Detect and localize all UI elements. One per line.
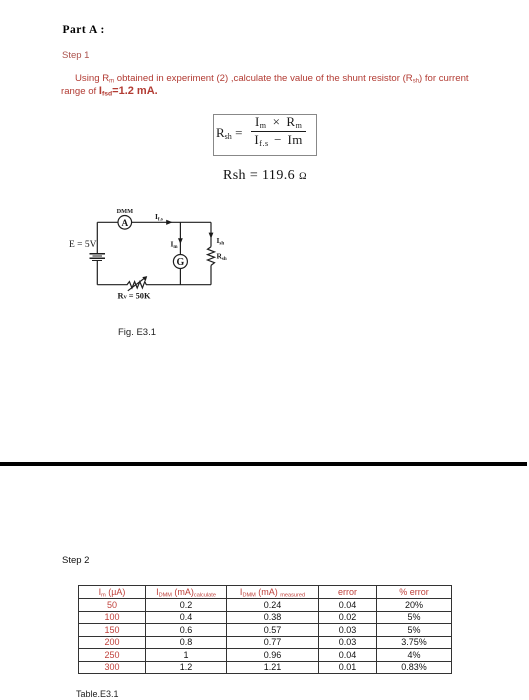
svg-text:Rv = 50K: Rv = 50K	[118, 292, 151, 301]
svg-text:Ish: Ish	[217, 236, 225, 247]
svg-text:Im: Im	[171, 240, 179, 251]
svg-text:DMM: DMM	[117, 208, 133, 215]
svg-text:E = 5V: E = 5V	[69, 240, 97, 250]
svg-text:Rsh: Rsh	[217, 251, 227, 262]
svg-text:A: A	[121, 218, 128, 228]
svg-text:G: G	[177, 257, 185, 268]
svg-text:If.s: If.s	[155, 212, 163, 223]
